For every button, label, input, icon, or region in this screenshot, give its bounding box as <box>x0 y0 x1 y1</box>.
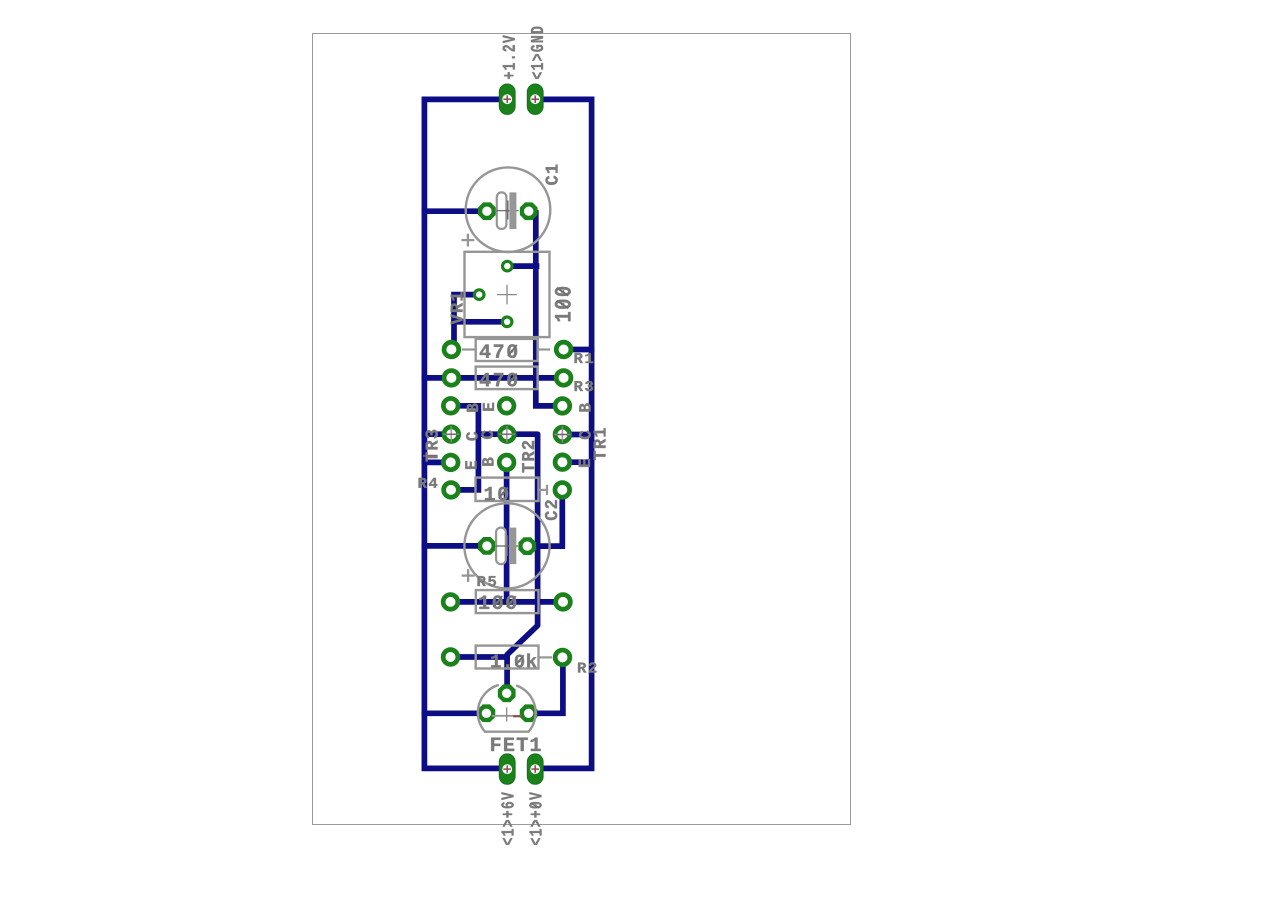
label TR2 (rotated) <box>522 441 534 473</box>
label TR1 (rotated) <box>594 428 606 460</box>
label <1>+6V (rotated) <box>501 792 513 845</box>
drawing frame border <box>313 34 851 825</box>
wire: TR1 bottom pad to right rail <box>562 459 591 465</box>
resistor R1 left pad <box>444 342 459 357</box>
pin letter C of TR2 <box>481 430 493 439</box>
label C2 (rotated) <box>545 500 557 520</box>
label value 10 of R4 <box>485 487 508 501</box>
resistor R3 right pad <box>556 371 571 386</box>
capacitor C1 left plate <box>497 192 507 229</box>
resistor R4 right pad <box>555 483 570 498</box>
wire: left rail to TR3 bottom pad <box>424 460 450 466</box>
FET1 gate pad (octagon) <box>498 684 516 702</box>
wire: left rail to FET1 source pad <box>424 710 486 716</box>
resistor R1 right pad <box>556 342 571 357</box>
resistor R2 right lead <box>539 656 552 658</box>
label FET1 <box>491 738 541 751</box>
pin letter B of TR3 <box>467 403 478 411</box>
capacitor C2 plate centerline <box>496 545 518 547</box>
transistor TR1 pad E <box>555 455 570 470</box>
pin letter B of TR1 <box>579 403 590 411</box>
label C1 (rotated) <box>545 165 557 185</box>
FET1 drain pad (octagon) <box>520 704 538 722</box>
wire: R4 right pad down then left to C2 right pad <box>527 490 562 546</box>
capacitor C1 plate centerline <box>497 210 518 212</box>
wire: R5 row left pad to right pad <box>451 599 564 605</box>
resistor R5 left pad <box>443 595 458 610</box>
transistor TR1 pad B <box>555 399 570 414</box>
label R2 <box>578 662 596 672</box>
transistor TR2 pad B <box>499 455 514 470</box>
pad X1-1 +1.2V (oval) <box>499 84 515 114</box>
wire: right rail (top-right corner, right border, bottom-right corner) <box>535 99 591 768</box>
transistor TR2 pad E <box>499 398 514 413</box>
wire: VR1 pin1 to vertical net (y=266) <box>507 263 536 269</box>
transistor TR3 pad E <box>443 455 458 470</box>
pin letter E of TR1 <box>579 459 590 467</box>
trimmer VR1 center cross <box>498 285 516 303</box>
wire: R2 left pad to FET gate vertical <box>451 654 508 660</box>
label TR3 (rotated) <box>425 430 437 462</box>
label value 470 of R1 <box>480 344 517 358</box>
capacitor C1 plus mark <box>463 235 474 246</box>
wire: R2 right pad down then left to FET1 drain pad <box>529 657 563 713</box>
capacitor C1 outline circle <box>466 167 551 252</box>
transistor TR1 center cross <box>555 427 570 442</box>
wire: VR1 wiper left then down to R1 left pad <box>454 295 479 350</box>
label <1>GND (rotated) <box>531 27 543 79</box>
wire: junction x=478.4 to TR2 middle pad <box>478 431 507 437</box>
FET1 red airwire dash <box>514 715 521 717</box>
wire: TR2 middle pad right, down, diagonal to FET1 gate pad <box>507 434 538 693</box>
capacitor C1 right plate <box>509 192 516 229</box>
transistor TR2 center cross <box>500 427 515 442</box>
label VR1 (rotated) <box>451 292 463 324</box>
capacitor C2 right plate <box>509 528 516 565</box>
capacitor C2 left plate <box>496 528 506 565</box>
pad X2-1 +6V (oval) <box>499 754 515 784</box>
label R4 <box>419 478 438 488</box>
pin letter B of TR2 <box>482 457 493 465</box>
transistor TR1 pad C <box>555 427 570 442</box>
wire: C1 right pad down to TR1 base pad (vertical x=535.8) <box>536 213 563 406</box>
label +1.2V (rotated) <box>503 35 515 79</box>
resistor R2 body outline <box>476 646 539 669</box>
resistor R1 body outline <box>476 339 538 361</box>
capacitor C2 pad - (octagon) <box>478 537 496 555</box>
wire: TR3 top pad jog right-down to R4 left pad <box>451 406 479 490</box>
capacitor C1 pad - (octagon) <box>478 202 496 220</box>
FET1 source pad (octagon) <box>478 704 496 722</box>
wire: R1 right pad to right rail <box>564 347 592 353</box>
resistor R5 right pad <box>556 595 571 610</box>
transistor TR3 pad C <box>444 427 459 442</box>
wire: left rail to C1 left pad <box>424 208 487 214</box>
capacitor C1 plate gap line <box>507 201 509 219</box>
transistor TR2 pad C <box>500 427 515 442</box>
pad X1-2 GND (oval) <box>527 84 543 114</box>
FET1 body outline (D-shape) <box>478 685 536 732</box>
capacitor C2 pad + (octagon) <box>518 537 536 555</box>
label R5 <box>478 576 496 586</box>
pin letter E of TR2 <box>483 403 494 411</box>
pin letter C of TR3 <box>466 432 478 441</box>
pin letter E of TR3 <box>465 461 476 469</box>
wire: left rail to TR3 middle pad <box>424 431 451 437</box>
trimmer VR1 pad 3 <box>502 317 512 327</box>
label value 100 of VR1 (rotated) <box>555 287 571 321</box>
FET1 center cross <box>506 708 508 721</box>
resistor R2 right pad <box>555 650 570 665</box>
wire: TR1 middle pad to right rail <box>562 432 591 438</box>
label R3 <box>575 381 593 391</box>
trimmer VR1 pad 1 <box>503 261 513 271</box>
wire: left rail to C2 left pad <box>424 543 487 549</box>
resistor R4 right lead <box>539 486 548 494</box>
transistor TR3 pad B <box>443 398 458 413</box>
label <1>+0V (rotated) <box>529 792 541 845</box>
capacitor C1 pad + (octagon) <box>520 202 538 220</box>
wire: TR2 bottom pad down to R5 row (vertical x=506.6) <box>504 462 510 602</box>
resistor R5 body outline <box>476 590 539 613</box>
trimmer VR1 pad 2 wiper <box>474 290 484 300</box>
capacitor C2 plus mark <box>463 570 474 581</box>
resistor R4 left pad <box>444 483 459 498</box>
FET1 pin line <box>493 715 521 717</box>
resistor R2 left pad <box>443 650 458 665</box>
resistor R3 body outline <box>476 367 538 390</box>
label value 1.0k of R2 <box>491 654 536 668</box>
label value 100 of R5 <box>479 595 516 609</box>
wire: left rail through R3 row to R3 right pad <box>424 375 563 381</box>
label R1 <box>575 353 594 363</box>
trimmer VR1 body outline <box>465 252 550 337</box>
capacitor C2 plate gap line <box>506 536 508 556</box>
label value 470 of R3 <box>480 373 517 387</box>
red airwire dash near TR3 <box>424 455 437 457</box>
resistor R3 left pad <box>444 371 459 386</box>
capacitor C2 outline circle <box>464 503 549 588</box>
pad X2-2 0V (oval) <box>527 754 543 784</box>
wire: VR1 pin3 left to junction x=454 <box>454 319 507 325</box>
wire: +V left rail (top-left corner, left border, bottom-left corner) <box>424 99 507 768</box>
resistor R4 body outline <box>476 478 539 501</box>
pin letter C of TR1 <box>579 431 591 440</box>
transistor TR3 center cross <box>444 427 459 442</box>
resistor R1 leads <box>463 348 549 350</box>
